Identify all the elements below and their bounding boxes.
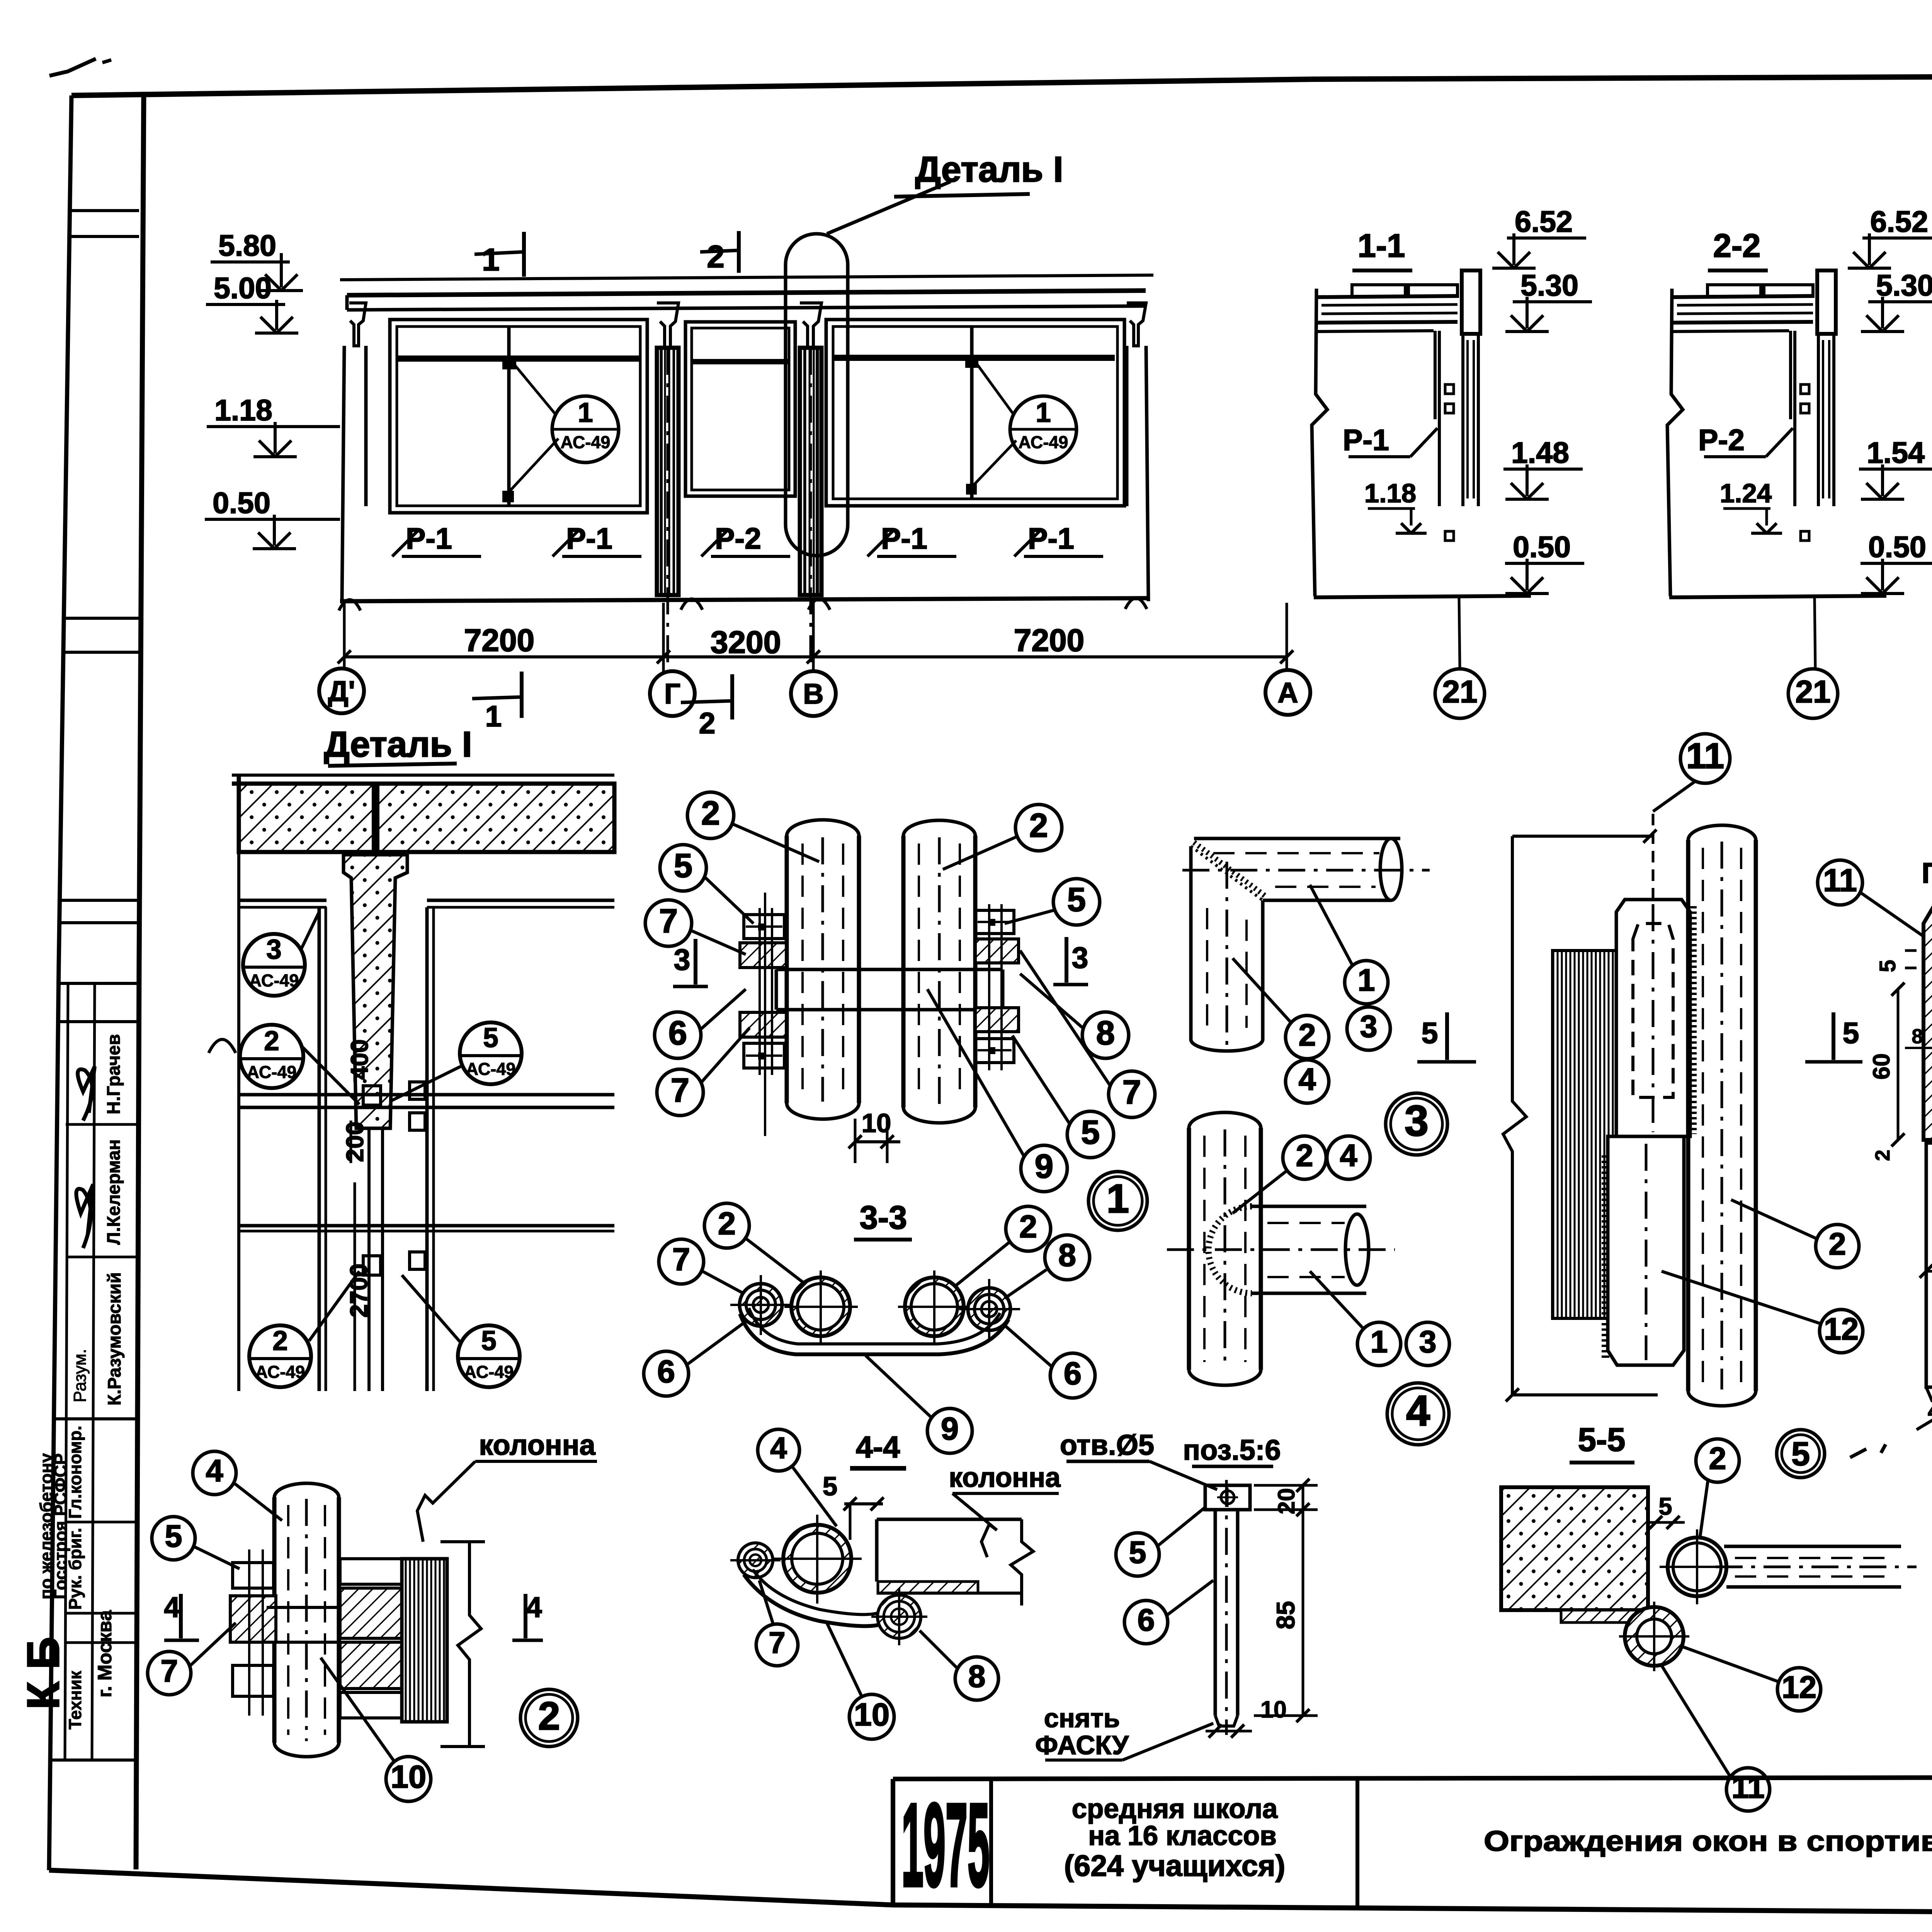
section 5-5 right pipe (1686, 840, 1690, 1391)
detail I rail upper (239, 1093, 614, 1097)
svg-text:4: 4 (1340, 1138, 1357, 1173)
svg-text:5.00: 5.00 (214, 272, 272, 305)
section 4-4 big pipe ring (783, 1525, 851, 1593)
section 4-4 bubble 4 (758, 1429, 799, 1471)
ground break marks (339, 600, 361, 611)
svg-text:2: 2 (1709, 1441, 1726, 1476)
detail I left window edge (237, 852, 240, 1391)
detail 1 right clamp nut top (975, 910, 1014, 934)
detail 2 bubble 4 (193, 1451, 236, 1495)
svg-text:8: 8 (1058, 1237, 1076, 1273)
section 2-2 window frame verticals (1789, 331, 1792, 419)
svg-text:ПОЗ. 11;12: ПОЗ. 11;12 (1922, 857, 1932, 889)
wall base line (340, 598, 1148, 601)
detail 4 tee vertical pipe (1187, 1128, 1191, 1370)
svg-text:5.30: 5.30 (1876, 269, 1932, 302)
detail I right window head rail (427, 899, 614, 902)
svg-text:2: 2 (264, 1026, 279, 1056)
detail 2 left clamp nut top (233, 1563, 274, 1588)
poz 11-12 upper hatched part (1923, 903, 1932, 1140)
detail 1 ref bubble 1 (1088, 1172, 1147, 1230)
svg-text:2: 2 (1029, 807, 1048, 844)
window group 1 callout 1/AC-49 (552, 396, 619, 463)
svg-text:6: 6 (1137, 1603, 1155, 1638)
svg-text:3: 3 (266, 934, 282, 965)
section 5-5 low bubble 11 (1726, 1768, 1770, 1811)
poz 11-12 bubble 11 (1818, 860, 1862, 905)
svg-text:0.50: 0.50 (1868, 531, 1926, 564)
svg-text:6: 6 (1064, 1355, 1082, 1391)
detail 2 bubble 10 (386, 1757, 431, 1801)
svg-text:АС-49: АС-49 (255, 1362, 305, 1382)
detail 2 bubble 7 (148, 1651, 191, 1695)
svg-text:В: В (803, 678, 823, 710)
svg-text:7: 7 (672, 1242, 690, 1277)
svg-text:АС-49: АС-49 (466, 1059, 516, 1079)
svg-text:Л.Келерман: Л.Келерман (103, 1139, 124, 1245)
svg-text:5: 5 (823, 1471, 837, 1501)
svg-text:1: 1 (485, 700, 502, 733)
title block left edge (891, 1779, 895, 1905)
section 1-1 window frame verticals (1434, 331, 1437, 419)
svg-text:5: 5 (481, 1326, 497, 1356)
svg-text:2: 2 (1298, 1018, 1316, 1053)
svg-text:4: 4 (206, 1454, 223, 1488)
detail I bubble 3/AC-49 (243, 934, 305, 996)
svg-text:1: 1 (1370, 1325, 1388, 1359)
svg-text:2: 2 (272, 1326, 288, 1356)
svg-text:8: 8 (1912, 1025, 1923, 1048)
svg-text:1.18: 1.18 (214, 394, 272, 427)
title block top line (893, 1777, 1932, 1779)
section 3-3 bubble 9 (927, 1408, 972, 1453)
window group 2 transom (692, 359, 788, 364)
svg-text:400: 400 (346, 1039, 373, 1080)
svg-text:3200: 3200 (711, 625, 781, 660)
stamp sub column lines (65, 983, 68, 1760)
section 2-2 left wall edge (1667, 289, 1683, 596)
detail 1 bubble 7 left (645, 900, 692, 946)
svg-text:3: 3 (674, 943, 690, 976)
section 4-4 left washer (738, 1543, 773, 1578)
svg-text:21: 21 (1442, 674, 1477, 709)
bolt shank (1214, 1510, 1217, 1716)
svg-text:9: 9 (1035, 1148, 1053, 1185)
svg-text:2: 2 (699, 707, 716, 740)
detail 1 bubble 7 right (1109, 1071, 1155, 1117)
detail I left window head rail (239, 899, 327, 902)
section 4-4 bubble 9 leader (889, 1430, 939, 1522)
section 1-1 window head (1316, 331, 1434, 332)
section 4-4 column outline (877, 1518, 1022, 1521)
section 3-3 bubble 6 right (1050, 1353, 1095, 1398)
section 3-3 right washer rings (968, 1288, 1010, 1330)
svg-text:10: 10 (1260, 1696, 1287, 1723)
detail 3 corner vertical pipe (1189, 846, 1193, 1039)
svg-text:(624 учащихся): (624 учащихся) (1064, 1849, 1285, 1883)
svg-text:3: 3 (1072, 941, 1088, 975)
section 5-5 weld teeth left of plate 12 (1602, 1155, 1609, 1360)
detail 1 bubble 5 right (1053, 879, 1100, 925)
svg-text:4: 4 (526, 1591, 542, 1623)
detail 1 right bolt lines (988, 904, 990, 1070)
svg-text:Ограждения окон в спортивно: Ограждения окон в спортивном зале (1484, 1825, 1932, 1857)
names rows dividers (66, 1123, 138, 1126)
detail 3 bubble 2 (1286, 1015, 1329, 1059)
detail 4 tee horizontal pipe (1252, 1205, 1366, 1208)
pilaster column 2 (800, 348, 821, 595)
section 3-3 left washer rings (740, 1284, 782, 1326)
svg-text:на 16 классов: на 16 классов (1088, 1821, 1277, 1851)
svg-text:снять: снять (1044, 1703, 1120, 1733)
section 4-4 bubble 7 (756, 1624, 798, 1666)
svg-text:2: 2 (1019, 1209, 1037, 1245)
detail 2 left clamp hatched (230, 1596, 276, 1642)
section 1-1 left wall edge (1312, 289, 1327, 596)
detail 3 weld seam diagonal (1191, 846, 1263, 900)
section 5-5 low bubble 2 (1696, 1439, 1739, 1482)
svg-text:Г: Г (664, 678, 680, 710)
detail 1 bubble 2 left (687, 792, 734, 838)
svg-text:2: 2 (538, 1694, 560, 1738)
svg-text:5: 5 (165, 1519, 182, 1554)
svg-text:11: 11 (1823, 862, 1857, 898)
svg-text:10: 10 (391, 1759, 426, 1795)
svg-text:6.52: 6.52 (1515, 205, 1573, 238)
svg-text:11: 11 (1731, 1770, 1765, 1805)
svg-text:Р-2: Р-2 (1698, 423, 1745, 457)
grid bubble V (791, 671, 836, 716)
svg-text:1: 1 (1036, 398, 1051, 428)
detail 4 bubble 2 (1283, 1136, 1326, 1179)
section 1-1 roof blocks (1352, 285, 1405, 296)
detail 2 bubble 5 (152, 1517, 195, 1560)
left portal column (342, 346, 344, 601)
svg-text:21: 21 (1795, 674, 1830, 709)
detail I tapered column head (344, 855, 407, 1128)
detail 4 weld semicircle (1209, 1206, 1252, 1293)
section 2-2 top slab band (1672, 296, 1813, 297)
detail I slab joint (372, 784, 379, 852)
svg-text:Д': Д' (328, 675, 355, 707)
grid bubble A (1265, 670, 1310, 715)
section 2-2 guard post upper (1817, 270, 1836, 334)
stamp column horizontal dividers (119, 209, 139, 212)
detail 1 bubble 5 left (660, 845, 706, 891)
window group 1 mullion (507, 327, 511, 506)
poz 11-12 bottom chamfer (1926, 1387, 1932, 1401)
svg-text:8: 8 (1096, 1014, 1115, 1052)
section 5-5 low pipe ring (1668, 1537, 1726, 1596)
left portal column cap (349, 303, 366, 346)
detail 1 right pipe (901, 836, 906, 1107)
detail 1 left clamp block hatched (740, 943, 786, 968)
svg-text:6: 6 (668, 1014, 687, 1052)
signature squiggles (78, 1066, 95, 1121)
svg-text:колонна: колонна (949, 1463, 1061, 1493)
svg-text:колонна: колонна (479, 1429, 595, 1461)
detail 3 bubble 3 (1347, 1007, 1390, 1050)
svg-text:9: 9 (941, 1411, 959, 1447)
svg-text:7: 7 (671, 1071, 689, 1109)
svg-text:отв.Ø5: отв.Ø5 (1060, 1429, 1154, 1461)
svg-text:АС-49: АС-49 (464, 1362, 514, 1382)
svg-text:Р-2: Р-2 (715, 522, 761, 555)
svg-text:7200: 7200 (464, 623, 534, 658)
section 1-1 guard post (1461, 334, 1464, 506)
svg-text:3: 3 (1360, 1009, 1377, 1044)
detail I left window jamb (318, 907, 321, 1391)
dim extension lines (343, 601, 346, 707)
detail 1 right clamp hatched (975, 939, 1019, 963)
detail 1 bubble 7 left lower (657, 1069, 703, 1116)
detail 2 right plates (340, 1559, 402, 1584)
detail I slab left edge line (237, 775, 241, 852)
corner scribble mark (49, 59, 96, 76)
detail 2 vertical pipe (272, 1497, 277, 1743)
bolt bubble 5 (1116, 1533, 1159, 1576)
section 3-3 right pipe ring (905, 1277, 964, 1336)
right portal column cap (1127, 303, 1146, 346)
svg-text:К.Разумовский: К.Разумовский (104, 1272, 124, 1406)
section 5-5 bubble 11 (1680, 734, 1730, 783)
section 5-5 leader dashed to bubble 11 (1652, 811, 1655, 900)
svg-text:5: 5 (1875, 960, 1900, 972)
section 2-2 leader to bubble (1815, 597, 1815, 667)
poz 11-12 lower plain part (1926, 1143, 1932, 1387)
dimension line 7200 3200 7200 (344, 655, 1287, 658)
elevation roof band (347, 291, 1146, 295)
svg-text:АС-49: АС-49 (247, 1062, 297, 1082)
inner left border of stamp column (136, 95, 144, 1869)
svg-text:АС-49: АС-49 (1019, 432, 1068, 452)
section 4-4 strap (744, 1575, 879, 1626)
svg-text:5.80: 5.80 (218, 229, 276, 262)
window group 1 frame (390, 320, 647, 513)
detail 1 bubble 6 left (655, 1012, 701, 1058)
detail 4 bubble 3 (1406, 1322, 1449, 1366)
section 3-3 bubble 2 left (704, 1203, 749, 1248)
detail I clamp plates mid (363, 1086, 381, 1105)
detail 1 bubble 8 right (1082, 1012, 1129, 1058)
svg-text:5: 5 (1422, 1017, 1438, 1050)
section 5-5 low concrete block (1501, 1487, 1648, 1610)
svg-text:г. Москва: г. Москва (94, 1610, 116, 1697)
svg-text:1: 1 (482, 242, 500, 277)
svg-text:7: 7 (1122, 1073, 1141, 1111)
svg-text:6: 6 (657, 1354, 675, 1389)
svg-text:7: 7 (160, 1654, 178, 1689)
section 5-5 dim bracket (1503, 836, 1526, 1395)
svg-text:2-2: 2-2 (1713, 228, 1761, 264)
window group 2 frame P-2 (685, 322, 795, 496)
svg-text:60: 60 (1868, 1053, 1895, 1080)
section 4-4 bubble 10 (849, 1694, 894, 1739)
svg-text:5: 5 (1067, 881, 1086, 918)
section 5-5 low hatched pipe ring (1625, 1607, 1684, 1666)
window group 3 mullion (970, 327, 974, 499)
pilaster cap 1 (657, 303, 679, 348)
svg-text:12: 12 (1824, 1312, 1859, 1347)
svg-text:2: 2 (1871, 1150, 1894, 1161)
section 1-1 leader to bubble (1459, 597, 1460, 667)
detail I bubble 2/AC-49 upper (240, 1025, 303, 1088)
svg-text:0.50: 0.50 (213, 486, 270, 520)
svg-text:200: 200 (342, 1121, 369, 1162)
svg-text:2: 2 (701, 794, 720, 832)
detail I callout leader (827, 182, 951, 234)
svg-text:8: 8 (968, 1659, 985, 1694)
svg-text:7: 7 (659, 902, 678, 940)
svg-text:7200: 7200 (1014, 623, 1084, 658)
detail 3 bubble 1 (1345, 961, 1388, 1004)
svg-text:Р-1: Р-1 (881, 522, 927, 555)
section 1-1 frame clips (1445, 384, 1454, 394)
svg-text:поз.5:6: поз.5:6 (1183, 1434, 1281, 1466)
section 5-5 low horizontal pipe (1724, 1545, 1901, 1548)
section 2-2 window head (1672, 331, 1789, 332)
pilaster column 1 (657, 348, 679, 595)
svg-text:2: 2 (707, 239, 724, 274)
detail I rail lower (239, 1224, 614, 1228)
svg-text:4: 4 (1406, 1387, 1430, 1435)
section 3-3 bubble 8 right (1045, 1235, 1090, 1280)
bolt bubble 6 (1124, 1600, 1168, 1644)
detail 1 bubble 9 (1021, 1145, 1067, 1192)
svg-text:Деталь I: Деталь I (324, 724, 472, 764)
svg-text:2700: 2700 (345, 1264, 372, 1318)
svg-text:АС-49: АС-49 (561, 432, 611, 452)
svg-text:7: 7 (769, 1626, 785, 1660)
svg-text:К Б: К Б (18, 1637, 68, 1709)
svg-text:5: 5 (483, 1023, 498, 1053)
svg-text:средняя школа: средняя школа (1072, 1794, 1278, 1824)
section 5-5 bubble 12 (1820, 1310, 1863, 1353)
svg-text:5-5: 5-5 (1578, 1422, 1626, 1458)
section 5-5 low base plate hatched (1561, 1610, 1648, 1622)
section 5-5 slotted plate poz11 (1616, 900, 1690, 1136)
svg-text:1.18: 1.18 (1364, 478, 1416, 508)
svg-text:2: 2 (1828, 1227, 1846, 1262)
section 5-5 weld teeth right of plate 11 (1688, 906, 1697, 1134)
detail 2 left clamp nut bottom (233, 1665, 274, 1696)
svg-text:4: 4 (1298, 1062, 1316, 1097)
detail 4 ref bubble 4 (1387, 1383, 1449, 1445)
window group 3 transom (834, 355, 1115, 361)
svg-text:1: 1 (1107, 1176, 1129, 1221)
svg-text:3: 3 (1419, 1325, 1436, 1359)
svg-text:1.54: 1.54 (1867, 436, 1925, 469)
section 1-1 bubble 21 (1435, 669, 1485, 718)
detail 1 bubble 2 right (1015, 804, 1062, 851)
detail 4 bubble 4 (1327, 1136, 1370, 1179)
detail 3 bubble 4 (1286, 1060, 1329, 1103)
svg-text:4: 4 (770, 1431, 787, 1465)
bolt head (1205, 1485, 1250, 1510)
grid bubble G (650, 671, 695, 716)
svg-text:А: А (1277, 677, 1298, 709)
detail 1 right clamp nut bottom (975, 1039, 1014, 1063)
svg-text:ФАСКУ: ФАСКУ (1035, 1730, 1129, 1760)
window group 3 frame (826, 320, 1124, 506)
window group 1 transom (398, 355, 639, 362)
svg-text:Н.Грачев: Н.Грачев (103, 1034, 124, 1114)
svg-text:1975: 1975 (901, 1779, 990, 1911)
svg-text:5: 5 (1791, 1435, 1810, 1473)
svg-text:1-1: 1-1 (1358, 228, 1405, 264)
detail I bubble 5/AC-49 lower (458, 1325, 520, 1387)
svg-text:85: 85 (1271, 1601, 1300, 1629)
detail I post between windows (367, 1128, 371, 1391)
svg-text:Р-1: Р-1 (566, 522, 612, 555)
section 2-2 bubble 21 (1788, 669, 1838, 718)
detail I bubble 2/AC-49 lower (249, 1325, 311, 1387)
svg-text:Р-1: Р-1 (1028, 522, 1074, 555)
svg-text:5: 5 (1843, 1017, 1859, 1050)
section 1-1 floor line (1314, 596, 1531, 597)
svg-text:Госстроя РСФСР: Госстроя РСФСР (51, 1453, 70, 1599)
detail 3 corner horizontal pipe (1194, 837, 1400, 840)
svg-text:0.50: 0.50 (1513, 531, 1571, 564)
detail 1 left pipe (785, 836, 789, 1103)
detail I bubble 5/AC-49 (460, 1022, 522, 1084)
section 3-3 bubble 2 right (1006, 1206, 1051, 1251)
detail I break mark left (209, 1039, 236, 1053)
elevation parapet line (340, 275, 1153, 280)
section 4-4 base plate hatched (878, 1582, 978, 1593)
pen dash marks (1850, 1449, 1866, 1458)
title block cell dividers (989, 1780, 993, 1906)
svg-text:АС-49: АС-49 (249, 971, 299, 990)
section 1-1 guard post upper (1462, 270, 1480, 334)
section 2-2 frame clips (1801, 384, 1809, 394)
section 5-5 plate poz12 (1608, 1136, 1684, 1365)
detail 4 bubble 1 (1357, 1322, 1401, 1366)
svg-text:Р-1: Р-1 (406, 522, 452, 555)
right portal column (1125, 346, 1129, 506)
detail 2 tie bar (267, 1606, 402, 1609)
section 1-1 top slab band (1316, 296, 1458, 297)
svg-text:11: 11 (1686, 736, 1724, 776)
detail 1 left bolt lines (759, 908, 761, 1075)
svg-text:2: 2 (1296, 1138, 1313, 1173)
svg-text:5.30: 5.30 (1520, 269, 1578, 302)
svg-text:10: 10 (854, 1697, 889, 1733)
detail 2 ref bubble 2 (520, 1689, 578, 1747)
detail 3 ref bubble 3 (1386, 1093, 1447, 1155)
pilaster cap 2 (800, 303, 821, 348)
section 5-5 grille bars (1553, 951, 1616, 1318)
detail I right window jamb (425, 907, 429, 1391)
svg-text:1: 1 (1357, 963, 1375, 998)
svg-text:5: 5 (1129, 1535, 1146, 1570)
svg-text:5: 5 (1081, 1114, 1100, 1151)
svg-text:6.52: 6.52 (1870, 205, 1928, 238)
svg-text:4-4: 4-4 (856, 1430, 900, 1464)
section 3-3 left pipe ring (791, 1277, 850, 1336)
svg-text:Разум.: Разум. (70, 1349, 90, 1403)
detail 2 dim line right (458, 1542, 481, 1747)
svg-text:3: 3 (1405, 1097, 1429, 1145)
section 4-4 lower washer (878, 1595, 921, 1638)
svg-text:1: 1 (578, 398, 593, 428)
section 2-2 roof blocks (1708, 285, 1761, 296)
window group 3 callout 1/AC-49 (1010, 396, 1077, 463)
detail I slab hatched band (239, 784, 614, 852)
section 2-2 floor line (1669, 596, 1886, 597)
ref bubble 5 double ring (1777, 1430, 1825, 1478)
svg-text:3-3: 3-3 (860, 1199, 907, 1236)
